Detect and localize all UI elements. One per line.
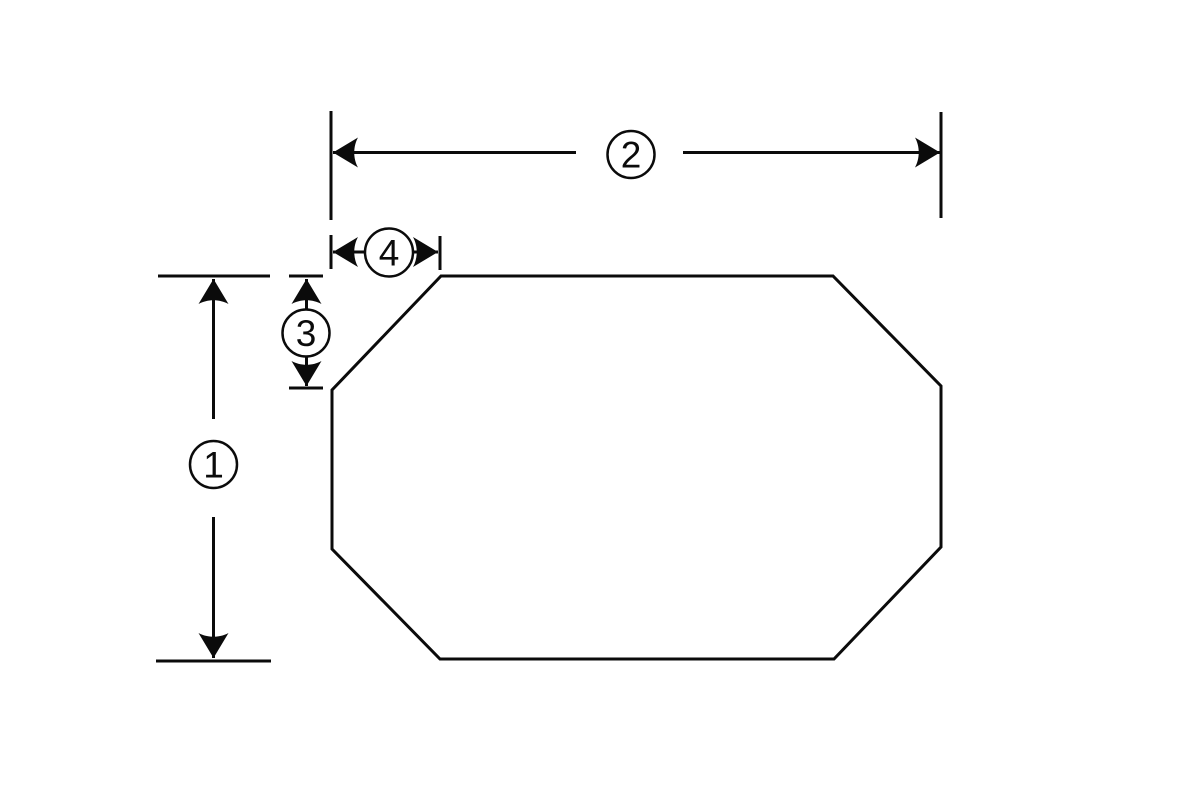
- arrowhead left: [333, 237, 358, 267]
- arrowhead down: [199, 633, 229, 658]
- label circle 4: [365, 229, 413, 277]
- short line top: [305, 279, 308, 310]
- dim line lower segment: [212, 517, 215, 658]
- dim line upper segment: [212, 279, 215, 419]
- tick left: [330, 235, 333, 269]
- svg-text:2: 2: [621, 135, 642, 176]
- svg-text:3: 3: [296, 313, 317, 354]
- arrowhead up: [199, 279, 229, 304]
- dim line right segment: [683, 151, 940, 154]
- label circle 2: [608, 131, 655, 178]
- tick top: [158, 275, 270, 278]
- svg-text:4: 4: [379, 233, 400, 274]
- svg-text:1: 1: [203, 445, 224, 486]
- tick bottom: [156, 660, 271, 663]
- dimension 2 (overall width, top): [331, 111, 941, 220]
- arrowhead right: [413, 237, 438, 267]
- octagon outline (chamfered rectangle): [332, 276, 941, 659]
- dim line left segment: [333, 151, 576, 154]
- short line left: [333, 251, 366, 254]
- label circle 3: [283, 310, 330, 357]
- arrowhead up: [292, 279, 322, 304]
- tick right: [439, 236, 442, 270]
- arrowhead left: [333, 138, 358, 168]
- label circle 1: [190, 441, 237, 488]
- extension line left: [330, 111, 333, 220]
- arrowhead down: [292, 361, 322, 386]
- dimension 4 (corner-cut width): [331, 229, 440, 277]
- short line bottom: [305, 356, 308, 386]
- tick top: [289, 275, 323, 278]
- dimension 3 (corner-cut height): [283, 276, 330, 388]
- extension line right: [940, 112, 943, 218]
- short line right: [412, 251, 438, 254]
- dimension 1 (overall height, left): [156, 276, 271, 661]
- arrowhead right: [915, 138, 940, 168]
- tick bottom: [289, 387, 323, 390]
